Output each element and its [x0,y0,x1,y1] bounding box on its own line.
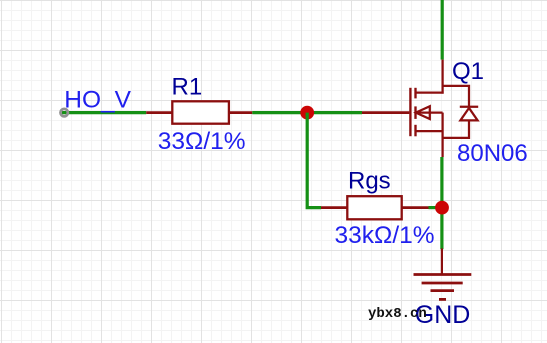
pin gate [362,111,409,114]
gate bar [409,88,411,136]
resistor Rgs pin 1 [321,206,347,209]
svg-text:Rgs: Rgs [348,167,391,194]
svg-text:R1: R1 [172,74,203,101]
wire junction down and to Rgs [307,113,321,208]
resistor R1 body [172,101,229,123]
resistor R1 pin 1 [146,111,172,114]
wire R1 to junction to gate [252,111,362,114]
diode triangle [460,108,477,120]
ground pin [441,248,443,274]
channel stub bulk [414,106,416,119]
svg-text:HO_V: HO_V [64,87,131,114]
resistor R1 pin 2 [229,111,252,114]
bulk lead [416,111,443,113]
resistor Rgs body [347,196,401,219]
drain lead [416,91,444,93]
port terminal ring HO_V [60,109,67,116]
junction node A [300,106,314,120]
svg-text:80N06: 80N06 [457,140,528,167]
channel stub source [414,125,416,137]
svg-text:ybx8.cn: ybx8.cn [368,306,427,322]
pin source / bulk vertical [441,113,443,157]
source lead [416,130,443,132]
wire source vertical [440,157,443,249]
junction node B [435,201,449,215]
diode anode lead [443,120,469,137]
resistor Rgs pin 2 [402,206,429,209]
svg-text:Q1: Q1 [452,58,484,85]
svg-text:33kΩ/1%: 33kΩ/1% [335,222,435,249]
diode cathode bar [460,106,478,108]
wire HO_V horizontal [62,111,146,114]
wire Rgs to junction B [429,206,443,209]
bulk arrow [416,106,430,119]
transistor Q1 [362,60,478,157]
wire drain from top [441,0,444,60]
svg-text:33Ω/1%: 33Ω/1% [158,128,246,155]
body diode top branch [443,86,469,107]
ground [414,275,472,300]
pin drain [441,60,443,94]
channel stub drain [414,88,416,99]
